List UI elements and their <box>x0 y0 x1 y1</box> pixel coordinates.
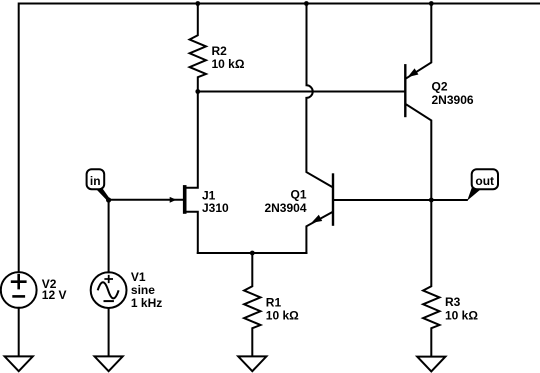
svg-text:R3: R3 <box>445 295 461 309</box>
svg-text:2N3906: 2N3906 <box>432 93 474 107</box>
svg-text:10 kΩ: 10 kΩ <box>212 57 245 71</box>
svg-text:J310: J310 <box>202 201 229 215</box>
svg-text:12 V: 12 V <box>42 288 67 302</box>
svg-text:R1: R1 <box>266 295 282 309</box>
svg-text:V1: V1 <box>131 270 146 284</box>
svg-text:out: out <box>475 174 494 188</box>
svg-text:Q1: Q1 <box>290 188 306 202</box>
svg-text:10 kΩ: 10 kΩ <box>445 308 478 322</box>
svg-text:1 kHz: 1 kHz <box>131 296 162 310</box>
svg-text:10 kΩ: 10 kΩ <box>266 309 299 323</box>
svg-text:in: in <box>90 174 101 188</box>
svg-text:2N3904: 2N3904 <box>264 201 306 215</box>
svg-text:Q2: Q2 <box>432 79 448 93</box>
